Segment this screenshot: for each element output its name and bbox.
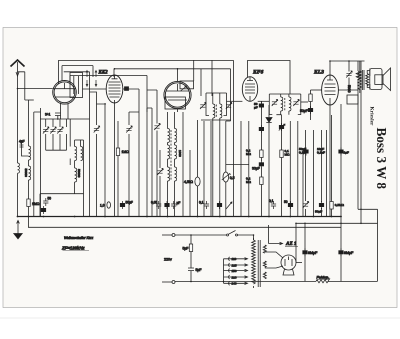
svg-text:4,5kΩ: 4,5kΩ	[184, 180, 193, 184]
IFT1	[206, 93, 227, 116]
B+ line and filter caps	[296, 222, 378, 224]
cap at oval output	[125, 87, 129, 91]
svg-text:50μF: 50μF	[126, 201, 133, 205]
svg-text:220: 220	[232, 275, 237, 279]
RF transformer under V1	[69, 119, 71, 165]
IFT2	[269, 94, 301, 115]
wire vert 290	[289, 121, 291, 217]
EL3 anode wire	[330, 90, 358, 217]
svg-text:220v: 220v	[164, 258, 172, 262]
svg-text:ZF=128kHz: ZF=128kHz	[61, 246, 85, 251]
svg-text:4μF: 4μF	[19, 140, 25, 144]
svg-text:30μF: 30μF	[252, 167, 260, 171]
svg-text:0,1: 0,1	[269, 199, 274, 203]
svg-text:50μF: 50μF	[315, 210, 322, 214]
svg-text:1MΩ: 1MΩ	[122, 150, 130, 154]
wire oval box rail	[114, 69, 231, 121]
svg-text:125: 125	[232, 263, 237, 267]
small pot oval	[197, 120, 199, 217]
tube EK2 small oval	[106, 75, 123, 103]
svg-text:5μF: 5μF	[183, 247, 189, 251]
volume pot	[225, 121, 227, 217]
wire IFT1 to EF6 grid	[227, 100, 243, 102]
trimmer row under V1	[46, 119, 67, 150]
svg-text:240: 240	[232, 282, 237, 286]
svg-text:1000: 1000	[178, 150, 182, 157]
tone resistor	[356, 61, 360, 94]
B+ rail right	[358, 61, 378, 281]
tube EF6	[242, 77, 257, 102]
field coil	[316, 278, 330, 283]
output transformer	[358, 61, 362, 93]
left antenna circuit	[28, 100, 30, 146]
svg-text:EF6: EF6	[252, 70, 263, 76]
trimmer C osc	[96, 104, 98, 217]
wire vert 211	[210, 121, 212, 217]
svg-text:EK2: EK2	[98, 71, 109, 76]
power transformer	[252, 240, 256, 284]
svg-text:0,5: 0,5	[230, 176, 235, 180]
mains RC filter	[190, 235, 192, 282]
capacitor 0,1uF det	[271, 201, 276, 209]
wire vert 233.5	[233, 60, 235, 216]
padder cap 3+1	[55, 113, 61, 119]
svg-text:0,05: 0,05	[151, 201, 157, 205]
EL3 cathode	[310, 90, 312, 120]
svg-text:5000: 5000	[347, 85, 351, 93]
wire vert 183	[182, 112, 184, 217]
tone cap	[348, 61, 350, 90]
wire vert 303	[302, 150, 304, 217]
capacitor 50uF EL3 grid	[321, 130, 323, 217]
svg-text:Kriesler: Kriesler	[369, 107, 375, 126]
svg-text:50000: 50000	[77, 169, 81, 178]
wire EF6 plate to IFT2	[258, 100, 270, 102]
svg-text:5μF: 5μF	[196, 268, 202, 272]
capacitor 50uF	[120, 201, 124, 209]
mains terminals	[172, 234, 175, 237]
tube V1 EK2 mixer	[53, 81, 77, 105]
svg-text:0,5MΩ: 0,5MΩ	[335, 203, 345, 207]
box at V2 bottom	[165, 97, 185, 109]
wire through oval	[83, 89, 158, 112]
voltage selector	[223, 259, 225, 284]
wire vert 212	[211, 60, 213, 96]
wire AVC row	[201, 119, 231, 121]
capacitor 0,1uF	[204, 201, 209, 209]
svg-text:MΩ: MΩ	[246, 180, 252, 184]
svg-text:1,0: 1,0	[100, 204, 105, 208]
wire vert 313	[313, 130, 315, 217]
EF6 screen loop	[248, 61, 291, 95]
svg-text:EL3: EL3	[313, 70, 324, 76]
svg-text:110: 110	[232, 257, 237, 261]
wire top bus A	[58, 59, 233, 61]
svg-text:μF: μF	[254, 106, 258, 110]
tube EL3	[322, 75, 339, 105]
chassis bus	[18, 216, 342, 218]
svg-text:50μF: 50μF	[300, 109, 308, 113]
tube V2	[164, 81, 191, 108]
wire vert 326	[326, 130, 328, 217]
svg-text:Feldsp.: Feldsp.	[317, 276, 330, 280]
capacitor 0,05uF	[156, 201, 161, 209]
wire vert 204	[203, 121, 205, 217]
svg-text:1μF: 1μF	[344, 151, 350, 155]
V2 anode arrow	[181, 86, 187, 91]
svg-text:AZ 1: AZ 1	[285, 241, 297, 247]
wire vert 190	[189, 150, 191, 217]
wire vert 298	[297, 121, 299, 217]
mains switch	[227, 234, 229, 236]
detector diode	[268, 105, 270, 217]
wire top bus C	[70, 76, 147, 113]
antenna	[11, 60, 25, 67]
svg-text:Boss 3 W 8: Boss 3 W 8	[374, 128, 389, 190]
mains bottom wire	[175, 281, 316, 283]
wire vert 341	[340, 104, 342, 217]
heater wire to AZ1	[269, 225, 283, 245]
svg-text:0,1: 0,1	[199, 201, 204, 205]
page shadow line at bottom	[0, 317, 400, 319]
wire vert from bus A	[57, 60, 59, 84]
mains switch on pot	[226, 202, 232, 209]
svg-text:3+1: 3+1	[45, 113, 51, 117]
svg-text:8MμF: 8MμF	[308, 251, 318, 255]
oval tube cathode drops	[104, 103, 106, 217]
V1 bottom leads	[61, 103, 69, 119]
box at V2	[180, 81, 194, 89]
wire antenna to V1	[18, 88, 53, 90]
wire V1 box rail	[62, 66, 93, 81]
wire det branch	[276, 115, 281, 217]
wire avc drop	[200, 69, 202, 96]
svg-text:Wellenschalter Kurz: Wellenschalter Kurz	[64, 236, 94, 240]
resistor oval 1,0	[107, 202, 111, 208]
oscillator box at V1	[70, 73, 83, 98]
EF6 circuit	[240, 121, 242, 217]
speaker	[370, 69, 382, 90]
trimmer bottom right	[305, 130, 307, 217]
wire IFT2 to EL3 grid	[301, 101, 308, 103]
bus second line	[28, 217, 341, 228]
svg-text:MΩ: MΩ	[285, 153, 291, 157]
tone box	[347, 95, 358, 104]
EL3 grid wire	[311, 89, 322, 91]
wire vert 89.5	[89, 92, 91, 217]
svg-text:μF: μF	[177, 201, 181, 205]
wire links left section	[34, 92, 152, 112]
svg-text:MΩ: MΩ	[246, 152, 252, 156]
svg-text:8MμF: 8MμF	[344, 251, 354, 255]
resistor 0,5M EL3	[331, 115, 333, 217]
svg-text:0,1μF: 0,1μF	[317, 151, 325, 155]
wire vert 358	[357, 94, 359, 209]
svg-text:50: 50	[48, 197, 52, 201]
ground	[17, 221, 20, 235]
capacitor 50pF	[43, 198, 48, 206]
grid line under V1	[40, 118, 90, 120]
wire short rail	[64, 72, 90, 92]
svg-text:50000: 50000	[24, 169, 28, 178]
svg-text:1MΩ: 1MΩ	[32, 202, 40, 206]
svg-text:50: 50	[284, 200, 288, 204]
EL3 top wire	[330, 61, 365, 75]
wave-change arrows	[86, 71, 88, 87]
oscillator transformer mid	[167, 112, 169, 129]
svg-text:150: 150	[232, 269, 237, 273]
wire antenna top link	[18, 72, 29, 100]
